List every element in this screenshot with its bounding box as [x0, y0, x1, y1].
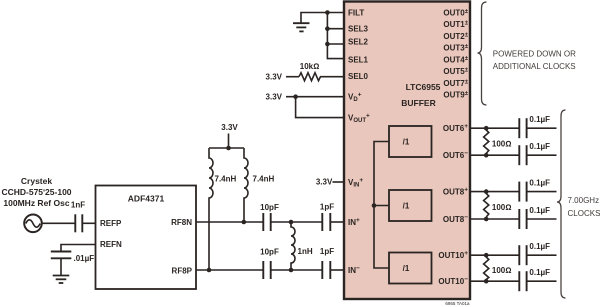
- svg-text:/1: /1: [403, 202, 410, 211]
- svg-text:0.1µF: 0.1µF: [529, 268, 550, 277]
- svg-text:100Ω: 100Ω: [492, 140, 512, 149]
- svg-text:10pF: 10pF: [260, 203, 279, 212]
- svg-text:100Ω: 100Ω: [492, 203, 512, 212]
- svg-text:3.3V: 3.3V: [316, 178, 333, 187]
- svg-text:0.1µF: 0.1µF: [529, 115, 550, 124]
- svg-text:10pF: 10pF: [260, 248, 279, 257]
- svg-text:Crystek: Crystek: [21, 176, 52, 186]
- svg-text:1pF: 1pF: [320, 247, 334, 256]
- svg-text:REFP: REFP: [100, 219, 122, 228]
- svg-text:0.1µF: 0.1µF: [529, 179, 550, 188]
- svg-text:OUT10+: OUT10+: [438, 250, 468, 260]
- svg-text:100MHz Ref Osc: 100MHz Ref Osc: [3, 198, 69, 208]
- svg-text:SEL2: SEL2: [348, 37, 369, 46]
- svg-text:REFN: REFN: [100, 240, 122, 249]
- svg-text:FILT: FILT: [348, 9, 364, 18]
- svg-text:0.1µF: 0.1µF: [529, 242, 550, 251]
- svg-text:CCHD-575ʹ25-100: CCHD-575ʹ25-100: [1, 187, 71, 197]
- svg-text:0.1µF: 0.1µF: [529, 142, 550, 151]
- svg-text:.01µF: .01µF: [74, 254, 95, 263]
- svg-text:LTC6955: LTC6955: [406, 82, 441, 92]
- svg-text:10kΩ: 10kΩ: [300, 62, 320, 71]
- svg-text:/1: /1: [403, 264, 410, 273]
- svg-text:3.3V: 3.3V: [266, 73, 283, 82]
- svg-text:3.3V: 3.3V: [266, 92, 283, 101]
- svg-text:7.00GHz: 7.00GHz: [568, 196, 600, 205]
- svg-text:0.1µF: 0.1µF: [529, 206, 550, 215]
- svg-text:ADF4371: ADF4371: [128, 194, 165, 204]
- svg-text:POWERED DOWN OR: POWERED DOWN OR: [493, 49, 576, 58]
- svg-text:SEL1: SEL1: [348, 56, 369, 65]
- svg-text:3.3V: 3.3V: [221, 123, 238, 132]
- svg-text:1nH: 1nH: [298, 247, 313, 256]
- svg-text:BUFFER: BUFFER: [401, 98, 435, 108]
- svg-text:SEL3: SEL3: [348, 25, 369, 34]
- svg-text:RF8N: RF8N: [171, 218, 192, 227]
- svg-text:7.4nH: 7.4nH: [215, 175, 237, 184]
- svg-text:1pF: 1pF: [320, 203, 334, 212]
- svg-text:RF8P: RF8P: [172, 267, 193, 276]
- svg-text:SEL0: SEL0: [348, 72, 369, 81]
- svg-text:7.4nH: 7.4nH: [253, 175, 275, 184]
- svg-text:100Ω: 100Ω: [492, 266, 512, 275]
- svg-text:6955 TA01a: 6955 TA01a: [445, 301, 470, 306]
- svg-text:1nF: 1nF: [71, 201, 85, 210]
- svg-text:OUT10−: OUT10−: [438, 276, 468, 286]
- svg-text:ADDITIONAL CLOCKS: ADDITIONAL CLOCKS: [493, 62, 576, 71]
- svg-text:/1: /1: [403, 138, 410, 147]
- svg-text:CLOCKS: CLOCKS: [568, 209, 600, 218]
